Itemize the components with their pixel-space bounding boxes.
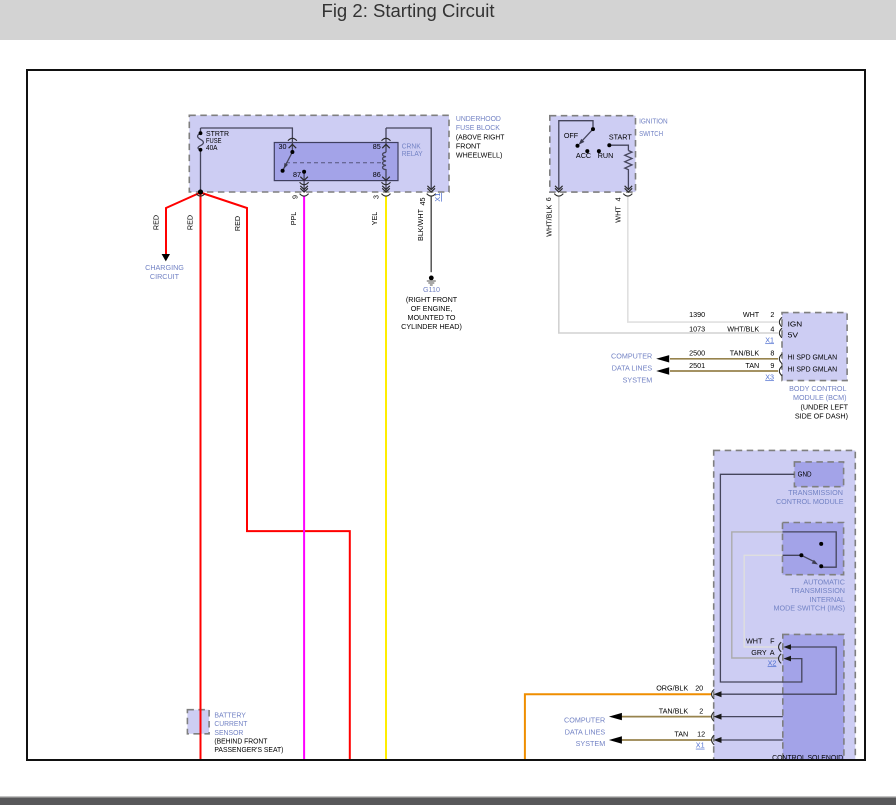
svg-text:WHEELWELL): WHEELWELL) (456, 151, 503, 160)
svg-text:RED: RED (186, 215, 195, 230)
svg-text:FUSE BLOCK: FUSE BLOCK (456, 123, 500, 132)
svg-text:(RIGHT FRONT: (RIGHT FRONT (406, 295, 458, 304)
svg-text:85: 85 (373, 142, 381, 151)
svg-text:PASSENGER'S SEAT): PASSENGER'S SEAT) (214, 745, 283, 754)
svg-text:TAN/BLK: TAN/BLK (659, 707, 689, 716)
svg-text:SENSOR: SENSOR (214, 728, 243, 737)
svg-text:2500: 2500 (689, 349, 705, 358)
svg-text:4: 4 (770, 325, 774, 334)
svg-text:RED: RED (233, 216, 242, 231)
svg-text:PPL: PPL (289, 212, 298, 226)
svg-text:1073: 1073 (689, 325, 705, 334)
svg-text:40A: 40A (206, 143, 218, 152)
svg-text:SYSTEM: SYSTEM (623, 375, 653, 384)
svg-text:HI SPD GMLAN: HI SPD GMLAN (788, 364, 838, 373)
svg-text:SWITCH: SWITCH (639, 129, 663, 138)
svg-text:FRONT: FRONT (456, 141, 481, 150)
svg-text:BODY CONTROL: BODY CONTROL (789, 384, 846, 393)
svg-text:OF ENGINE,: OF ENGINE, (411, 304, 453, 313)
svg-text:WHT: WHT (614, 206, 623, 223)
svg-text:CIRCUIT: CIRCUIT (150, 272, 180, 281)
svg-text:COMPUTER: COMPUTER (564, 716, 605, 725)
svg-text:1390: 1390 (689, 310, 705, 319)
svg-text:2: 2 (770, 310, 774, 319)
svg-text:RUN: RUN (598, 151, 614, 160)
svg-text:ACC: ACC (576, 151, 591, 160)
svg-text:MODE SWITCH (IMS): MODE SWITCH (IMS) (774, 603, 845, 612)
svg-text:2: 2 (699, 707, 703, 716)
svg-text:5V: 5V (788, 330, 799, 339)
svg-text:CYLINDER HEAD): CYLINDER HEAD) (401, 322, 462, 331)
svg-text:MODULE (BCM): MODULE (BCM) (793, 393, 847, 402)
svg-text:20: 20 (695, 683, 703, 692)
svg-text:IGNITION: IGNITION (639, 116, 668, 125)
svg-text:86: 86 (373, 170, 381, 179)
svg-text:YEL: YEL (370, 212, 379, 226)
svg-text:12: 12 (697, 730, 705, 739)
svg-text:DATA LINES: DATA LINES (565, 727, 606, 736)
svg-text:8: 8 (770, 349, 774, 358)
svg-text:BLK/WHT: BLK/WHT (416, 208, 425, 241)
svg-text:SYSTEM: SYSTEM (576, 739, 606, 748)
svg-text:X2: X2 (768, 658, 777, 667)
svg-text:WHT/BLK: WHT/BLK (545, 205, 554, 237)
svg-text:WHT: WHT (746, 637, 763, 646)
svg-text:(UNDER LEFT: (UNDER LEFT (800, 403, 848, 412)
svg-text:X3: X3 (765, 372, 774, 381)
svg-text:4: 4 (614, 197, 623, 201)
svg-text:START: START (609, 133, 633, 142)
svg-text:RELAY: RELAY (402, 149, 423, 158)
svg-text:COMPUTER: COMPUTER (611, 352, 652, 361)
svg-text:UNDERHOOD: UNDERHOOD (456, 114, 501, 123)
svg-text:30: 30 (279, 142, 287, 151)
svg-text:6: 6 (544, 197, 553, 201)
svg-text:45: 45 (418, 198, 427, 206)
svg-text:DATA LINES: DATA LINES (612, 363, 653, 372)
svg-text:X1: X1 (696, 741, 705, 750)
svg-text:BATTERY: BATTERY (214, 710, 246, 719)
svg-text:TAN: TAN (745, 361, 759, 370)
svg-text:IGN: IGN (788, 319, 803, 328)
svg-text:WHT/BLK: WHT/BLK (727, 325, 759, 334)
svg-text:CHARGING: CHARGING (145, 263, 184, 272)
svg-text:WHT: WHT (743, 310, 760, 319)
svg-text:OFF: OFF (564, 131, 579, 140)
svg-text:A: A (770, 648, 775, 657)
svg-text:87: 87 (293, 170, 301, 179)
svg-text:RED: RED (152, 215, 161, 230)
svg-text:ORG/BLK: ORG/BLK (656, 683, 688, 692)
svg-text:TAN: TAN (674, 730, 688, 739)
svg-text:(ABOVE RIGHT: (ABOVE RIGHT (456, 132, 505, 141)
svg-text:TAN/BLK: TAN/BLK (730, 349, 760, 358)
svg-text:MOUNTED TO: MOUNTED TO (407, 313, 455, 322)
svg-text:9: 9 (291, 195, 300, 199)
svg-text:X1: X1 (433, 193, 442, 202)
svg-text:GRY: GRY (751, 648, 767, 657)
svg-text:CONTROL MODULE: CONTROL MODULE (776, 497, 844, 506)
svg-text:X1: X1 (765, 335, 774, 344)
svg-text:G110: G110 (423, 285, 440, 294)
svg-text:2501: 2501 (689, 361, 705, 370)
svg-text:CURRENT: CURRENT (214, 719, 248, 728)
svg-text:HI SPD GMLAN: HI SPD GMLAN (788, 353, 838, 362)
svg-text:9: 9 (770, 361, 774, 370)
svg-text:GND: GND (798, 470, 812, 479)
svg-text:F: F (770, 637, 775, 646)
svg-text:SIDE OF DASH): SIDE OF DASH) (795, 411, 848, 420)
svg-text:Fig 2: Starting Circuit: Fig 2: Starting Circuit (322, 1, 495, 21)
svg-text:3: 3 (372, 195, 381, 199)
